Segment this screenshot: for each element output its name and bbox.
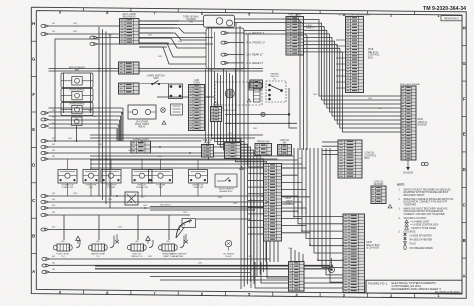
- junction box A67: [125, 192, 138, 205]
- connector J7-1: [41, 228, 49, 231]
- speedometer adapter arc: [176, 221, 192, 239]
- connector stack MCB relay chassis: [343, 214, 365, 293]
- zone letters left edge: [31, 21, 36, 274]
- wire corner upper left: [55, 39, 99, 141]
- turn signal flasher box: [204, 15, 235, 27]
- horn relay box: [169, 84, 183, 99]
- wire routed down right 3: [244, 34, 307, 150]
- ground chassis under engine box: [403, 160, 414, 175]
- connector J3-2: [41, 118, 49, 121]
- wire: [76, 126, 78, 142]
- connector P2: [41, 33, 49, 36]
- wire: [150, 276, 288, 278]
- wire corner right of ste-ice: [289, 88, 297, 128]
- component box right of relay: [171, 104, 183, 115]
- triangle marker 2: [247, 99, 251, 102]
- wire: [90, 137, 255, 139]
- connector stack MCB J-box engine: [401, 86, 416, 160]
- connector J8-2: [42, 264, 50, 267]
- wire: [50, 272, 252, 274]
- flasher can 1: [216, 18, 223, 25]
- vertical harness fan right: [294, 148, 343, 217]
- ether start relay: [128, 105, 156, 119]
- wire bundle from bulkhead connector: [139, 20, 179, 22]
- connector stack S5: [131, 141, 151, 153]
- wire: [205, 69, 207, 143]
- connector P3: [90, 36, 98, 39]
- wire: [196, 218, 251, 220]
- connector lamp 4: [221, 61, 229, 64]
- ground: [184, 234, 188, 243]
- sender drop wires: [76, 236, 184, 248]
- fuel level transmitter: [57, 244, 70, 251]
- legend symbol ON SHIELDED WIRES: [404, 245, 406, 250]
- front brake valve PB3: [61, 73, 93, 88]
- transmission oil temp transmitter: [162, 244, 175, 251]
- connector J5-1: [41, 195, 49, 198]
- wire bends lower left into chassis stack: [255, 262, 343, 288]
- wire: [49, 68, 264, 70]
- fuel heater control switch: [101, 170, 121, 184]
- triangle marker 3: [388, 205, 392, 208]
- wire: [244, 30, 286, 32]
- connector J5-3: [41, 207, 49, 210]
- ground: [146, 236, 151, 243]
- wire: [157, 96, 214, 98]
- vertical harness bundle center-2: [235, 22, 237, 148]
- connector stack cab floor: [189, 85, 205, 131]
- wire: [225, 113, 288, 115]
- junction dot: [288, 114, 290, 116]
- wire bundle to cab connector: [49, 107, 124, 109]
- hand brake valve: [61, 103, 93, 116]
- wire: [229, 42, 245, 44]
- connector lamp 1: [221, 32, 229, 35]
- water temperature transmitter: [92, 244, 105, 251]
- heater feed connector grid: [250, 80, 263, 88]
- legend symbol PLUG: [404, 242, 407, 245]
- ground: [115, 234, 119, 243]
- connector J8-3: [42, 271, 50, 274]
- wire routed down right 1: [235, 19, 301, 150]
- connector stack S2: [225, 143, 241, 159]
- wire: [49, 229, 181, 231]
- connector P1: [41, 25, 49, 28]
- wire: [49, 33, 120, 35]
- wire: [225, 122, 297, 124]
- vertical harness bundle bottom-center: [250, 198, 252, 288]
- connector stack TS control box: [346, 17, 364, 93]
- wire routed down right 2: [235, 23, 304, 151]
- wire bundle lower rows: [49, 195, 299, 197]
- wire: [49, 25, 120, 27]
- legend symbol RH SIDE OF HEATER: [404, 237, 407, 240]
- wire number labels: [68, 23, 383, 265]
- connector stack MCB J-box cab: [264, 164, 282, 242]
- wire stubs out of cab J-box stack: [282, 167, 295, 169]
- engine oil pressure switch: [132, 170, 152, 184]
- heater switch dashed box: [266, 81, 286, 102]
- ground: [76, 236, 81, 243]
- wire: [160, 279, 288, 281]
- connector J3-3: [41, 125, 49, 128]
- connector stack J2: [119, 62, 140, 74]
- wire: [208, 69, 210, 160]
- legend symbol LH SIDE OF HEATER: [404, 233, 407, 236]
- wire stubs into cab J-box stack: [248, 166, 264, 168]
- connector J4-2: [41, 146, 49, 149]
- sender lead wires: [63, 215, 65, 240]
- wire: [150, 209, 255, 211]
- vertical harness bundle left-center: [98, 27, 100, 196]
- connector stack J1 bulkhead: [120, 19, 140, 45]
- connector J4-1: [41, 140, 49, 143]
- ether start switch: [58, 170, 77, 184]
- ground location 2: [405, 223, 409, 226]
- left edge wire tags: [52, 23, 55, 271]
- wire bundle center rows: [49, 140, 202, 142]
- wire: [139, 20, 204, 22]
- bottom lamp circle: [329, 267, 335, 273]
- connector lamp 2: [221, 41, 229, 44]
- engine oil pressure transmitter: [131, 244, 144, 251]
- connector J4-4: [41, 158, 49, 161]
- wire: [98, 43, 214, 45]
- ground location 3: [405, 226, 409, 229]
- revision box: [441, 16, 462, 21]
- dark bus wire mid: [50, 264, 331, 266]
- STE-ICE dashed box: [215, 82, 262, 105]
- dark bus wire upper: [50, 258, 271, 260]
- connector lamp 3: [221, 53, 229, 56]
- decel box: [249, 83, 261, 91]
- wire feeders bottom center stack: [290, 248, 292, 262]
- connector stack low oil control: [338, 140, 362, 178]
- component row stub wires: [67, 159, 69, 170]
- wire risers inside turn box: [208, 28, 210, 69]
- triangle marker 4: [240, 166, 244, 169]
- wire bundle mid lower: [90, 155, 294, 157]
- splice symbol near engine box: [421, 162, 424, 165]
- dark bus wire lower: [95, 268, 330, 270]
- connector J8-1: [42, 258, 50, 261]
- wire: [229, 54, 245, 56]
- connector stack low oil sensor: [371, 186, 386, 204]
- brake valve lower component: [72, 117, 83, 126]
- oil pressure lamp circle: [225, 240, 231, 246]
- wire: [98, 37, 214, 39]
- zone numbers bottom edge: [59, 290, 440, 298]
- rear brake valve: [61, 89, 93, 102]
- connector stack J4 firewall: [286, 17, 304, 56]
- heater fuse strip: [254, 89, 261, 103]
- fuel heater solenoid: [83, 170, 99, 184]
- wire: [49, 214, 191, 216]
- connector J5-2: [41, 201, 49, 204]
- turn signal connector box: [206, 28, 244, 69]
- transmission oil temp switch: [189, 170, 208, 184]
- ground location 1: [405, 220, 409, 223]
- connector stack J3: [119, 83, 140, 94]
- wire: [139, 24, 204, 26]
- title block: [366, 280, 462, 293]
- tachograph alarm box: [215, 174, 237, 187]
- connector stack aft bulkhead: [211, 107, 222, 122]
- wire bends top right to engine box: [304, 20, 401, 97]
- connector stack bottom center: [289, 262, 305, 292]
- zone letters right edge: [462, 26, 466, 279]
- wire: [90, 134, 263, 136]
- vertical harness bundle center routed: [212, 69, 242, 289]
- connector J6-1: [41, 214, 49, 217]
- wire feeders from cab J-box bottom: [265, 241, 267, 262]
- tachograph connector: [182, 219, 196, 228]
- connector stack S1: [202, 145, 214, 158]
- connector J4-3: [41, 152, 49, 155]
- wire stubs into TS control box: [336, 39, 346, 41]
- lamp LP6: [261, 112, 265, 116]
- triangle marker 1: [162, 121, 166, 124]
- flasher can 2: [227, 20, 233, 26]
- wire: [229, 62, 245, 64]
- connector stack S3: [255, 144, 272, 156]
- wire: [229, 32, 245, 34]
- stair wires into turn box: [139, 28, 206, 33]
- heater rotary switch: [269, 84, 283, 100]
- diagnostic gauge circle: [225, 89, 234, 98]
- wire: [49, 70, 264, 72]
- connector P3: [90, 43, 98, 46]
- horn switch contact: [140, 83, 169, 85]
- wire stubs into low oil control stack: [322, 141, 338, 143]
- low air switch: [149, 170, 173, 184]
- connector stack S4: [278, 145, 292, 156]
- wire: [150, 206, 263, 208]
- wire: [63, 73, 65, 113]
- horn lamp: [161, 108, 166, 113]
- zone numbers top edge: [59, 8, 440, 18]
- connector J3-1: [41, 112, 49, 115]
